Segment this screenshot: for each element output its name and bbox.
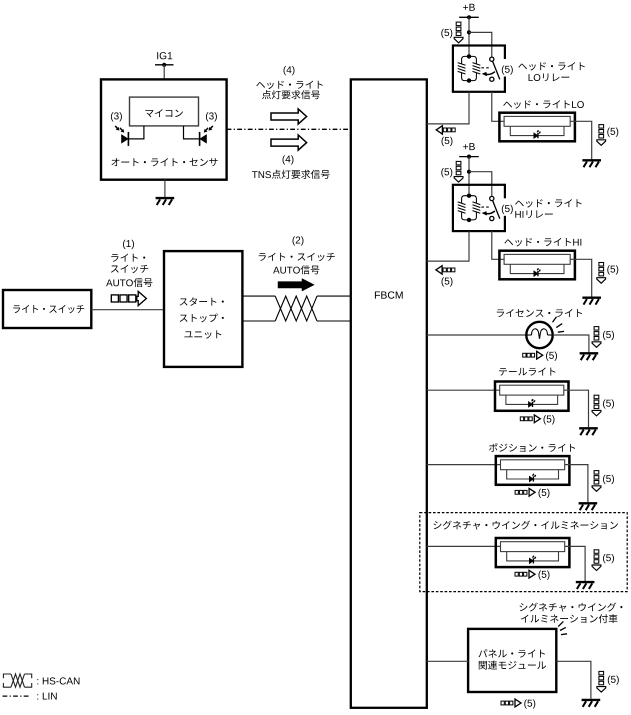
lamp position light — [496, 456, 570, 485]
wire +B down (LO) — [468, 17, 470, 56]
junction dot +B (LO) — [467, 15, 471, 19]
light switch box — [3, 290, 91, 328]
wire sensor to ground — [164, 180, 166, 197]
lamp headlight HI — [499, 251, 575, 280]
wire micon to right photodiode — [184, 126, 200, 139]
wire panel module to ground — [556, 661, 591, 699]
FBCM box — [351, 79, 427, 707]
label (5) signature col — [603, 554, 614, 563]
legend LIN symbol — [3, 695, 31, 697]
wire LIN sensor to FBCM — [227, 128, 351, 130]
label (5) LO lamp — [607, 128, 618, 137]
label (5) license — [546, 352, 557, 361]
legend label HS-CAN — [37, 677, 79, 684]
wire license to ground — [553, 335, 589, 352]
label light switch — [13, 305, 84, 313]
signal arrow CAN — [278, 279, 314, 291]
connector (5) position col — [592, 471, 601, 492]
label (4) TNS request — [283, 155, 294, 164]
ground license — [580, 353, 599, 360]
lamp signature wing — [496, 538, 570, 567]
wire FBCM to position light — [427, 464, 501, 466]
pin count (3) left — [111, 112, 122, 121]
wire HI lamp to ground — [570, 259, 592, 296]
connector (5) license col — [592, 327, 601, 348]
label license light — [497, 309, 582, 317]
label headlight on request line2 — [262, 90, 320, 99]
microcontroller box U1 — [130, 97, 199, 126]
ground LO lamp — [582, 160, 601, 167]
+B tick (LO) — [459, 16, 479, 18]
label (5) HI coil wire — [442, 277, 453, 286]
connector HI coil wire — [436, 266, 455, 274]
junction dot branch (LO) — [467, 30, 471, 34]
photodiode D1 left — [115, 126, 128, 146]
wire FBCM to panel module — [427, 660, 468, 662]
wire FBCM to license light — [427, 334, 526, 336]
pin count (3) right — [206, 112, 217, 121]
wire LO lamp to ground — [570, 121, 592, 159]
label (5) position col — [603, 475, 614, 484]
junction dot branch (HI) — [467, 170, 471, 174]
label (5) HI lamp — [607, 265, 618, 274]
wire LO switch to lamp — [492, 92, 505, 122]
label (2) — [293, 236, 304, 245]
wire signature to ground — [565, 546, 586, 581]
IG1 supply tick — [155, 64, 174, 66]
label start stop line3 — [184, 330, 221, 338]
auto light sensor box — [101, 79, 227, 179]
ground HI lamp — [582, 298, 601, 305]
label (5) license col — [603, 331, 614, 340]
label panel light module line2 — [479, 661, 546, 670]
connector position — [515, 488, 535, 496]
note line1 signature equipped — [520, 603, 623, 612]
relay LO — [453, 46, 505, 92]
connector (5) +B (LO) — [454, 22, 463, 43]
+B tick (HI) — [459, 156, 479, 158]
label light switch signal line3 — [106, 278, 152, 287]
label (5) LO coil wire — [442, 137, 453, 146]
label light switch signal line1 — [111, 254, 145, 262]
connector tail — [520, 415, 540, 423]
+B supply label (HI) — [463, 143, 475, 150]
relay label line1 HI — [515, 199, 581, 207]
lamp tail light — [495, 382, 569, 411]
HS-CAN twist symbol — [275, 296, 317, 321]
photodiode D2 right — [200, 126, 213, 146]
ground tail — [579, 428, 598, 435]
label auto light sensor — [111, 158, 217, 166]
wire HI coil to FBCM — [427, 231, 469, 261]
label (5) relay LO — [501, 59, 515, 77]
label tail light — [499, 368, 555, 376]
start stop unit box — [164, 251, 242, 367]
label (5) tail col — [603, 399, 614, 408]
label (5) tail — [544, 415, 555, 424]
signal arrow TNS request — [271, 135, 307, 150]
option dashed box signature wing — [420, 513, 627, 592]
label start stop line2 — [180, 313, 224, 322]
label CAN signal line2 — [273, 265, 319, 274]
label headlight HI lamp — [504, 238, 581, 246]
connector (5) HI lamp — [597, 263, 606, 284]
label headlight LO lamp — [503, 100, 584, 108]
connector (5) LO lamp — [597, 125, 606, 146]
label (5) relay HI — [501, 198, 515, 216]
net label IG1 — [157, 52, 172, 59]
license light bulb — [526, 322, 552, 348]
label signature wing illumination — [434, 521, 618, 530]
ground signature — [576, 582, 595, 589]
wire +B down (HI) — [468, 157, 470, 196]
connector panel module — [501, 699, 521, 707]
note leader marks — [558, 621, 567, 634]
junction dot IG1 — [162, 63, 166, 67]
wire branch to switch (HI) — [469, 172, 492, 197]
label (4) headlight request — [284, 66, 295, 75]
HS-CAN twisted pair top wire — [242, 295, 275, 297]
wire position to ground — [565, 465, 588, 503]
connector (5) panel col — [597, 671, 606, 692]
connector license — [523, 351, 543, 359]
junction dot +B (HI) — [467, 155, 471, 159]
ground position — [579, 503, 598, 510]
label (5) +B (LO) — [441, 29, 452, 38]
label (5) panel module — [524, 699, 535, 708]
panel light module box — [468, 629, 556, 692]
connector symbol light switch signal — [111, 291, 146, 305]
label (5) panel col — [608, 676, 619, 685]
label light switch signal line2 — [111, 265, 148, 273]
wire light switch to start stop unit — [91, 309, 164, 311]
wire branch to switch (LO) — [469, 32, 492, 57]
lamp headlight LO — [499, 113, 575, 142]
label headlight on request line1 — [256, 81, 322, 89]
wire FBCM to signature lamp — [427, 545, 501, 547]
label (1) — [123, 240, 134, 249]
note line2 signature equipped — [521, 614, 618, 623]
legend HS-CAN symbol — [3, 674, 31, 687]
relay label line2 HI — [515, 210, 552, 218]
light rays license — [553, 317, 565, 332]
label (5) +B (HI) — [441, 168, 452, 177]
connector (5) signature col — [592, 550, 601, 571]
label FBCM — [375, 291, 403, 298]
legend label LIN — [37, 693, 56, 700]
wire tail to ground — [564, 390, 589, 427]
wire FBCM to tail light — [427, 389, 500, 391]
ground sensor — [156, 198, 175, 205]
signal arrow headlight request — [271, 109, 307, 124]
label start stop line1 — [180, 297, 224, 305]
label panel light module line1 — [479, 649, 545, 657]
label (5) signature — [539, 571, 550, 580]
label position light — [489, 443, 575, 452]
label microcontroller — [145, 109, 182, 117]
label CAN signal line1 — [259, 253, 335, 261]
wire micon to left photodiode — [129, 126, 144, 139]
HS-CAN twisted pair bottom wire — [242, 320, 275, 322]
ground panel module — [582, 700, 601, 707]
label (5) position — [539, 489, 550, 498]
label TNS on request — [252, 170, 330, 179]
connector (5) +B (HI) — [454, 161, 463, 182]
connector signature — [515, 570, 535, 578]
+B supply label (LO) — [463, 4, 475, 11]
relay label line2 LO — [529, 73, 570, 81]
wire HI switch to lamp — [492, 231, 505, 259]
wire IG1 to sensor box — [163, 65, 165, 80]
connector (5) tail col — [592, 395, 601, 416]
connector LO coil wire — [436, 126, 455, 134]
wire LO coil to FBCM — [427, 92, 469, 124]
relay HI — [453, 185, 505, 231]
relay label line1 LO — [518, 62, 584, 70]
